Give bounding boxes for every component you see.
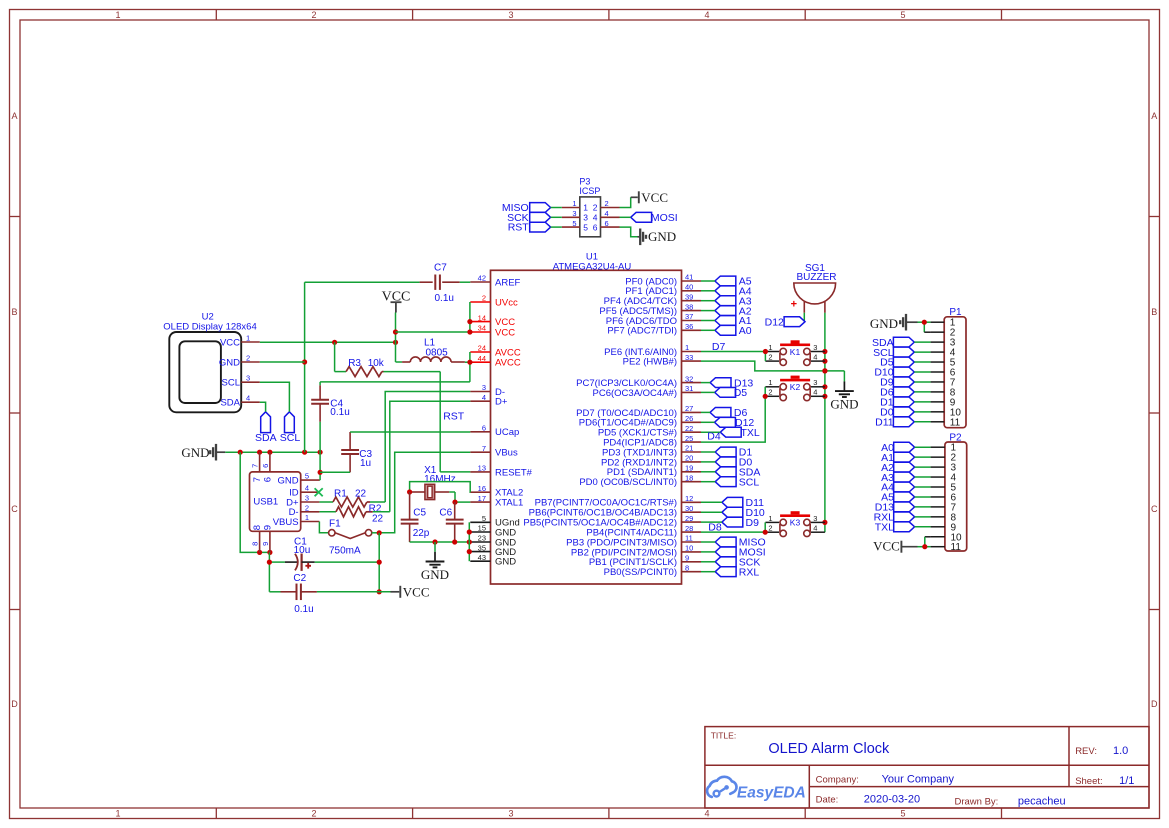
net flag D11 at P1 pin 11 bbox=[875, 417, 930, 429]
svg-text:GND: GND bbox=[421, 567, 449, 582]
svg-text:PE2 (HWB#): PE2 (HWB#) bbox=[623, 357, 677, 368]
svg-text:OLED Alarm Clock: OLED Alarm Clock bbox=[768, 741, 890, 757]
svg-text:UCap: UCap bbox=[495, 427, 519, 438]
net flag A3 at P2 pin 4 bbox=[881, 472, 930, 484]
svg-text:4: 4 bbox=[605, 209, 609, 218]
svg-text:2: 2 bbox=[305, 503, 309, 512]
svg-text:22: 22 bbox=[685, 424, 693, 433]
svg-text:D8: D8 bbox=[708, 522, 722, 534]
svg-text:K2: K2 bbox=[790, 382, 801, 392]
svg-text:VCC: VCC bbox=[403, 584, 430, 599]
svg-text:6: 6 bbox=[262, 477, 273, 482]
P2 pins and numbers bbox=[931, 443, 962, 554]
net flag TXL bbox=[701, 427, 760, 439]
wire XTAL1 net bbox=[452, 492, 470, 505]
svg-text:USB1: USB1 bbox=[253, 497, 278, 508]
svg-text:BUZZER: BUZZER bbox=[797, 272, 837, 283]
svg-text:TXL: TXL bbox=[741, 427, 760, 439]
P3 part name ICSP bbox=[579, 186, 600, 196]
svg-text:5: 5 bbox=[900, 808, 905, 818]
U2 reference designator bbox=[202, 312, 214, 323]
net flag D1 bbox=[701, 447, 752, 459]
ground symbol GND right of keys bbox=[830, 371, 858, 412]
svg-text:pecacheu: pecacheu bbox=[1018, 795, 1066, 807]
net flag D5 bbox=[701, 387, 747, 399]
svg-text:K1: K1 bbox=[790, 347, 801, 357]
svg-text:VBUS: VBUS bbox=[273, 517, 299, 528]
C1 value 10u bbox=[294, 545, 311, 556]
svg-text:2: 2 bbox=[482, 294, 486, 303]
svg-text:D: D bbox=[11, 699, 18, 709]
svg-text:26: 26 bbox=[685, 414, 693, 423]
svg-text:TXL: TXL bbox=[875, 522, 894, 534]
C6 reference designator bbox=[439, 507, 452, 518]
svg-text:ATMEGA32U4-AU: ATMEGA32U4-AU bbox=[553, 261, 632, 272]
net flag SDA bbox=[701, 467, 760, 479]
svg-text:AREF: AREF bbox=[495, 277, 521, 288]
svg-text:SCL: SCL bbox=[739, 476, 760, 488]
svg-text:36: 36 bbox=[685, 322, 693, 331]
svg-text:3: 3 bbox=[508, 10, 513, 20]
svg-text:R3: R3 bbox=[348, 358, 361, 369]
wire C3 top to UCap pin bbox=[350, 431, 470, 433]
net label RST bbox=[443, 410, 465, 422]
svg-text:GND: GND bbox=[277, 476, 298, 487]
svg-text:1: 1 bbox=[768, 343, 772, 352]
net flag A4 bbox=[701, 286, 752, 298]
wire XTAL2 net bbox=[407, 482, 470, 495]
net flag A4 at P2 pin 5 bbox=[881, 482, 930, 494]
power flag VCC right of C2 bbox=[391, 584, 430, 599]
svg-text:1: 1 bbox=[583, 203, 588, 213]
U1 right pins with numbers and names bbox=[523, 273, 701, 578]
net flag D1 at P1 pin 9 bbox=[880, 397, 930, 409]
net label D4 bbox=[707, 430, 721, 442]
svg-text:1: 1 bbox=[685, 343, 689, 352]
svg-text:A: A bbox=[1151, 111, 1157, 121]
net flag MISO bbox=[502, 202, 562, 214]
svg-text:1: 1 bbox=[572, 199, 576, 208]
wire U2 SDA pin4 to SDA flag bbox=[260, 402, 266, 412]
resistor R1 bbox=[319, 497, 370, 507]
svg-text:25: 25 bbox=[685, 434, 693, 443]
net flag D9 bbox=[701, 517, 759, 529]
wire AVCC net bbox=[320, 352, 472, 382]
svg-text:AVCC: AVCC bbox=[495, 358, 521, 369]
net flag A1 at P2 pin 2 bbox=[881, 452, 930, 464]
SG1 reference designator bbox=[805, 263, 825, 274]
R2 reference designator bbox=[369, 504, 382, 515]
P3 pins and pin numbers bbox=[562, 199, 620, 232]
svg-text:B: B bbox=[1151, 307, 1157, 317]
svg-text:4: 4 bbox=[704, 10, 709, 20]
svg-text:3: 3 bbox=[583, 213, 588, 223]
svg-text:7: 7 bbox=[482, 444, 486, 453]
svg-text:K3: K3 bbox=[790, 518, 801, 528]
svg-text:37: 37 bbox=[685, 312, 693, 321]
U2 part name OLED Display 128x64 bbox=[163, 322, 256, 333]
wire AREF net vertical bbox=[302, 282, 307, 452]
wire VCC symbol to VCC pins and L1 bbox=[393, 302, 473, 362]
svg-text:14: 14 bbox=[478, 313, 486, 322]
svg-text:4: 4 bbox=[813, 388, 817, 397]
svg-text:Your Company: Your Company bbox=[882, 773, 955, 785]
svg-text:35: 35 bbox=[478, 543, 486, 552]
svg-text:8: 8 bbox=[685, 563, 689, 572]
svg-text:42: 42 bbox=[478, 274, 486, 283]
net flag A1 bbox=[701, 315, 752, 327]
svg-text:GND: GND bbox=[870, 316, 898, 331]
svg-text:GND: GND bbox=[495, 557, 516, 568]
title block Drawn By label bbox=[955, 796, 999, 807]
svg-text:P3: P3 bbox=[579, 177, 590, 187]
svg-text:C: C bbox=[1151, 504, 1158, 514]
svg-text:GND: GND bbox=[219, 357, 240, 368]
svg-text:32: 32 bbox=[685, 374, 693, 383]
net flag SCK bbox=[507, 212, 562, 224]
svg-text:2: 2 bbox=[768, 524, 772, 533]
svg-text:D12: D12 bbox=[765, 316, 784, 328]
svg-text:3: 3 bbox=[508, 808, 513, 818]
svg-text:REV:: REV: bbox=[1075, 746, 1097, 757]
svg-text:43: 43 bbox=[478, 553, 486, 562]
title block Company label bbox=[816, 774, 859, 785]
F1 reference designator bbox=[329, 519, 341, 530]
resistor R2 bbox=[319, 507, 372, 517]
svg-text:2: 2 bbox=[593, 203, 598, 213]
wire U1 GND pins vertical bbox=[467, 522, 472, 561]
svg-text:5: 5 bbox=[482, 514, 486, 523]
svg-text:Sheet:: Sheet: bbox=[1075, 776, 1102, 787]
inductor L1 bbox=[396, 357, 470, 362]
svg-text:0805: 0805 bbox=[426, 347, 449, 358]
net flag D6 at P1 pin 8 bbox=[880, 387, 930, 399]
svg-text:TITLE:: TITLE: bbox=[711, 731, 737, 741]
C2 value 0.1u bbox=[294, 604, 313, 615]
svg-text:1: 1 bbox=[768, 514, 772, 523]
svg-text:GND: GND bbox=[648, 229, 676, 244]
wire U2 GND to vertical bbox=[260, 361, 305, 363]
title block author pecacheu bbox=[1018, 795, 1066, 807]
C3 value 1u bbox=[360, 458, 371, 469]
svg-text:16MHz: 16MHz bbox=[424, 474, 456, 485]
wire R3 to RESET# RST net bbox=[384, 372, 471, 472]
svg-text:SDA: SDA bbox=[255, 432, 277, 444]
wire C1 node verticals bbox=[267, 533, 382, 595]
net flag MOSI at P3 pin4 bbox=[620, 212, 678, 224]
P1 reference designator bbox=[949, 307, 962, 318]
power symbol VCC above U1 bbox=[382, 289, 411, 312]
svg-text:D9: D9 bbox=[746, 517, 760, 529]
net flag A2 bbox=[701, 305, 752, 317]
svg-text:P1: P1 bbox=[949, 307, 962, 318]
title block date value 2020-03-20 bbox=[864, 793, 920, 805]
svg-text:A0: A0 bbox=[739, 325, 752, 337]
svg-text:0.1u: 0.1u bbox=[294, 604, 313, 615]
title block REV value 1.0 bbox=[1113, 745, 1128, 757]
wire P2 pin10 to VCC bbox=[922, 537, 930, 550]
net flag SDA below U2 bbox=[255, 412, 277, 444]
svg-text:1: 1 bbox=[115, 808, 120, 818]
svg-text:4: 4 bbox=[246, 394, 250, 403]
module U2 OLED Display body bbox=[169, 332, 241, 412]
connector USB1 body bbox=[250, 472, 301, 531]
svg-text:SCL: SCL bbox=[280, 432, 301, 444]
wire R1 to U1 D- pin bbox=[370, 392, 470, 503]
svg-text:1: 1 bbox=[246, 334, 250, 343]
svg-text:18: 18 bbox=[685, 473, 693, 482]
svg-text:3: 3 bbox=[813, 514, 817, 523]
svg-text:4: 4 bbox=[704, 808, 709, 818]
net flag RST bbox=[508, 222, 562, 234]
net flag SDA at P1 pin 3 bbox=[872, 337, 931, 349]
svg-text:2020-03-20: 2020-03-20 bbox=[864, 793, 920, 805]
net flag D9 at P1 pin 7 bbox=[880, 377, 930, 389]
svg-text:D: D bbox=[1151, 699, 1158, 709]
svg-text:4: 4 bbox=[305, 484, 309, 493]
capacitor C7 bbox=[305, 275, 471, 290]
svg-text:10: 10 bbox=[685, 544, 693, 553]
svg-text:29: 29 bbox=[685, 514, 693, 523]
svg-text:5: 5 bbox=[583, 222, 588, 232]
capacitor C3 bbox=[320, 432, 359, 472]
svg-text:2: 2 bbox=[768, 388, 772, 397]
C1 reference designator bbox=[294, 536, 307, 547]
C5 reference designator bbox=[413, 507, 426, 518]
svg-text:6: 6 bbox=[605, 219, 609, 228]
capacitor C5 bbox=[401, 492, 419, 542]
net flag D10 bbox=[701, 507, 765, 519]
svg-text:4: 4 bbox=[813, 524, 817, 533]
connector P1 body bbox=[944, 317, 966, 428]
svg-text:3: 3 bbox=[246, 374, 250, 383]
U2 pins with numbers and names bbox=[219, 334, 260, 409]
net flag TXL at P2 pin 9 bbox=[875, 522, 931, 534]
svg-text:41: 41 bbox=[685, 273, 693, 282]
capacitor C1 polarized bbox=[269, 554, 379, 571]
wire PE2 to ground rail bbox=[701, 361, 844, 373]
R2 value 22 bbox=[372, 513, 384, 524]
capacitor C6 bbox=[446, 502, 464, 542]
title block Date label bbox=[816, 794, 839, 805]
wire buzzer to keys vertical bbox=[822, 313, 827, 532]
svg-text:3: 3 bbox=[572, 209, 576, 218]
net flag D13 at P2 pin 7 bbox=[875, 502, 931, 514]
svg-text:3: 3 bbox=[813, 343, 817, 352]
svg-text:10u: 10u bbox=[294, 545, 311, 556]
svg-text:1: 1 bbox=[768, 378, 772, 387]
svg-text:38: 38 bbox=[685, 302, 693, 311]
X1 reference designator bbox=[424, 465, 437, 476]
USB1 reference designator bbox=[253, 497, 278, 508]
svg-text:39: 39 bbox=[685, 292, 693, 301]
svg-text:D5: D5 bbox=[734, 387, 748, 399]
svg-text:A: A bbox=[11, 111, 17, 121]
net flag A0 bbox=[701, 325, 752, 337]
USB1 right pins with numbers and names bbox=[273, 472, 320, 528]
svg-text:22: 22 bbox=[355, 488, 367, 499]
svg-text:750mA: 750mA bbox=[329, 545, 361, 556]
C4 reference designator bbox=[330, 399, 343, 410]
svg-text:VCC: VCC bbox=[220, 337, 240, 348]
svg-text:SCL: SCL bbox=[222, 378, 240, 389]
net flag SCL below U2 bbox=[280, 412, 301, 444]
ground flag GND at P1 bbox=[870, 314, 931, 331]
svg-text:PC6(OC3A/OC4A#): PC6(OC3A/OC4A#) bbox=[593, 388, 677, 399]
U1 part name ATMEGA32U4-AU bbox=[553, 261, 632, 272]
svg-text:3: 3 bbox=[482, 383, 486, 392]
svg-text:RESET#: RESET# bbox=[495, 467, 533, 478]
svg-text:2: 2 bbox=[605, 199, 609, 208]
net flag D0 at P1 pin 10 bbox=[880, 407, 930, 419]
svg-text:9: 9 bbox=[685, 554, 689, 563]
svg-text:1/1: 1/1 bbox=[1119, 775, 1134, 787]
ruler column numbers bbox=[115, 10, 905, 818]
net label D7 bbox=[712, 341, 726, 353]
svg-text:7: 7 bbox=[252, 477, 263, 482]
svg-text:3: 3 bbox=[305, 494, 309, 503]
svg-text:4: 4 bbox=[593, 213, 598, 223]
svg-text:24: 24 bbox=[478, 344, 486, 353]
svg-text:12: 12 bbox=[685, 494, 693, 503]
svg-text:VBus: VBus bbox=[495, 448, 518, 459]
R1 reference designator bbox=[334, 488, 347, 499]
net flag D10 at P1 pin 6 bbox=[874, 367, 930, 379]
svg-text:+: + bbox=[791, 299, 797, 311]
net flag D13 bbox=[701, 377, 753, 389]
no-connect cross on USB1 ID pin bbox=[315, 488, 323, 496]
SG1 plus polarity mark bbox=[791, 299, 797, 311]
svg-text:GND: GND bbox=[830, 397, 858, 412]
svg-text:VCC: VCC bbox=[873, 538, 900, 553]
svg-text:2: 2 bbox=[768, 353, 772, 362]
EasyEDA logo bbox=[707, 777, 806, 802]
svg-text:D+: D+ bbox=[495, 397, 508, 408]
wire P1 pin2 to ground bbox=[922, 320, 931, 333]
svg-text:VCC: VCC bbox=[495, 327, 515, 338]
P3 reference designator bbox=[579, 177, 590, 187]
title block REV label bbox=[1075, 746, 1097, 757]
ground flag GND at P3 pin6 bbox=[620, 227, 677, 245]
net flag SCK bbox=[701, 557, 760, 569]
svg-text:21: 21 bbox=[685, 444, 693, 453]
svg-text:ICSP: ICSP bbox=[579, 186, 600, 196]
capacitor C4 bbox=[311, 382, 329, 452]
net flag MOSI bbox=[701, 547, 766, 559]
L1 value 0805 bbox=[426, 347, 449, 358]
svg-text:20: 20 bbox=[685, 454, 693, 463]
svg-text:11: 11 bbox=[950, 417, 961, 428]
net flag A0 at P2 pin 1 bbox=[881, 442, 930, 454]
svg-text:D7: D7 bbox=[712, 341, 726, 353]
C7 reference designator bbox=[434, 263, 447, 274]
svg-text:1u: 1u bbox=[360, 458, 371, 469]
svg-text:2: 2 bbox=[246, 354, 250, 363]
title block Sheet value 1/1 bbox=[1119, 775, 1134, 787]
net flag A5 at P2 pin 6 bbox=[881, 492, 930, 504]
P2 reference designator bbox=[949, 433, 962, 444]
title block title text OLED Alarm Clock bbox=[768, 741, 890, 757]
connector P2 body bbox=[945, 442, 967, 551]
svg-text:40: 40 bbox=[685, 283, 693, 292]
svg-text:VCC: VCC bbox=[495, 317, 515, 328]
X1 value 16MHz bbox=[424, 474, 456, 485]
C7 value 0.1u bbox=[435, 293, 454, 304]
wire VBus net bbox=[377, 452, 471, 535]
net flag D12 at buzzer bbox=[765, 313, 805, 329]
svg-text:4: 4 bbox=[813, 353, 817, 362]
C4 value 0.1u bbox=[330, 407, 349, 418]
net flag SCL at P1 pin 4 bbox=[873, 347, 930, 359]
net flag D6 bbox=[701, 407, 747, 419]
C3 reference designator bbox=[359, 449, 372, 460]
svg-text:RST: RST bbox=[508, 222, 530, 234]
title block company name Your Company bbox=[882, 773, 955, 785]
svg-text:C2: C2 bbox=[293, 573, 306, 584]
title block Sheet label bbox=[1075, 776, 1102, 787]
push button K1 bbox=[765, 340, 825, 365]
wire U2 SCL pin3 to SCL flag bbox=[260, 382, 290, 412]
U1 left pins with numbers and names bbox=[470, 274, 532, 568]
net flag D11 bbox=[701, 497, 764, 509]
svg-text:31: 31 bbox=[685, 384, 693, 393]
svg-text:17: 17 bbox=[478, 494, 486, 503]
SG1 part name BUZZER bbox=[797, 272, 837, 283]
svg-text:D4: D4 bbox=[707, 430, 721, 442]
svg-text:Drawn By:: Drawn By: bbox=[955, 796, 999, 807]
svg-text:B: B bbox=[11, 307, 17, 317]
svg-text:22: 22 bbox=[372, 513, 384, 524]
svg-text:11: 11 bbox=[685, 534, 693, 543]
title block TITLE label bbox=[711, 731, 737, 741]
P1 pins and numbers bbox=[931, 318, 962, 429]
svg-text:34: 34 bbox=[478, 324, 486, 333]
svg-text:8: 8 bbox=[252, 525, 263, 530]
R3 reference designator bbox=[348, 358, 361, 369]
svg-text:23: 23 bbox=[478, 534, 486, 543]
USB1 shield pins 8 9 bottom bbox=[251, 525, 274, 552]
svg-text:27: 27 bbox=[685, 404, 693, 413]
C5 value 22p bbox=[413, 528, 430, 539]
svg-text:9: 9 bbox=[261, 542, 270, 546]
net flag A2 at P2 pin 3 bbox=[881, 462, 930, 474]
net label D8 bbox=[708, 522, 722, 534]
svg-text:VCC: VCC bbox=[641, 190, 668, 205]
net flag A3 bbox=[701, 295, 752, 307]
svg-text:5: 5 bbox=[305, 472, 309, 481]
wire C4 bottom to USB GND pin and C3 bbox=[318, 452, 323, 480]
svg-text:0.1u: 0.1u bbox=[435, 293, 454, 304]
title block frame bbox=[705, 727, 1149, 808]
net flag RXL bbox=[701, 566, 759, 578]
svg-text:44: 44 bbox=[478, 354, 486, 363]
ruler row letters bbox=[11, 111, 1158, 709]
svg-text:C6: C6 bbox=[439, 507, 452, 518]
svg-text:F1: F1 bbox=[329, 519, 341, 530]
wire PE6 D7 to K1 bbox=[701, 349, 768, 361]
svg-text:C7: C7 bbox=[434, 263, 447, 274]
svg-text:5: 5 bbox=[900, 10, 905, 20]
svg-text:28: 28 bbox=[685, 524, 693, 533]
ground flag GND left of USB1 bbox=[181, 444, 225, 461]
svg-text:0.1u: 0.1u bbox=[330, 407, 349, 418]
svg-text:3: 3 bbox=[813, 378, 817, 387]
svg-text:PB0(SS/PCINT0): PB0(SS/PCINT0) bbox=[604, 567, 677, 578]
svg-text:11: 11 bbox=[951, 542, 962, 553]
R3 value 10k bbox=[368, 358, 385, 369]
buzzer SG1 bbox=[794, 283, 836, 313]
F1 value 750mA bbox=[329, 545, 361, 556]
